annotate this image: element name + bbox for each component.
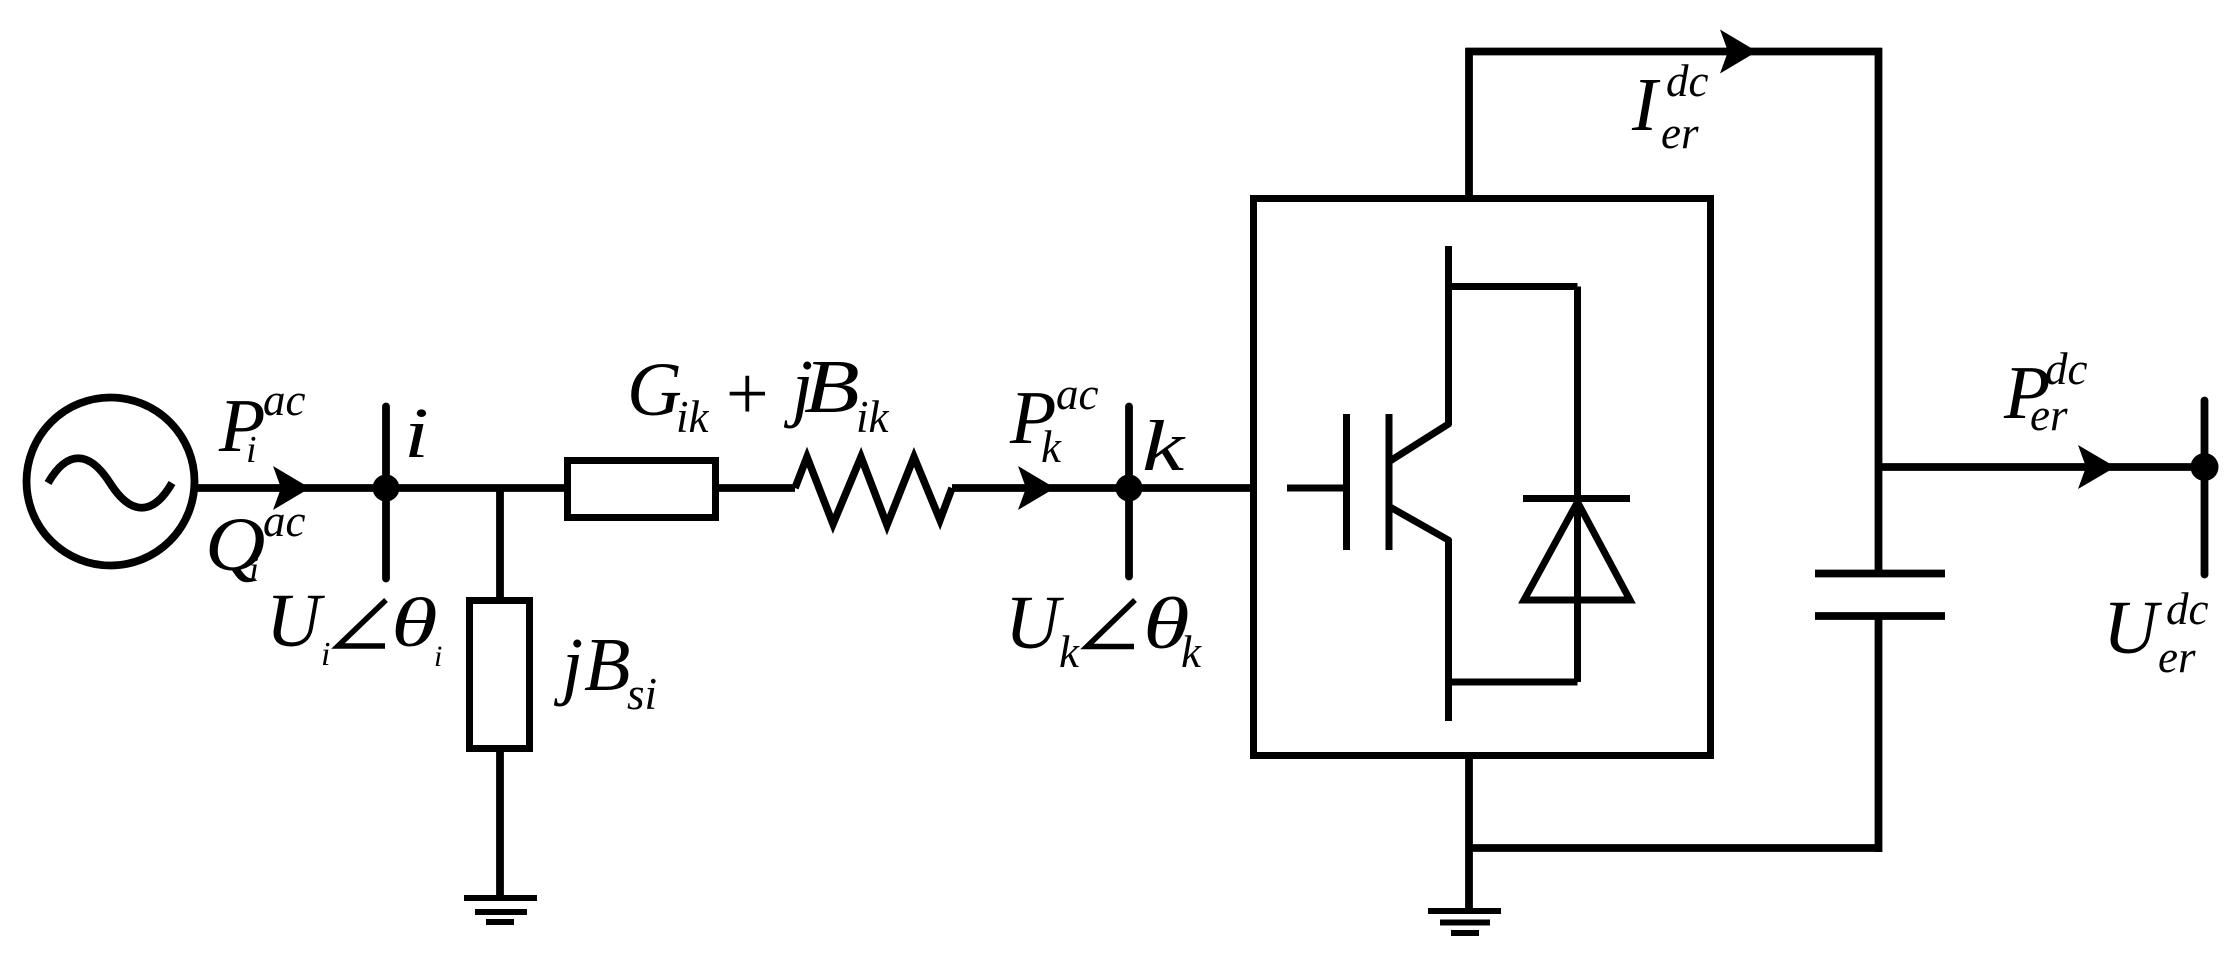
svg-text:ik: ik bbox=[856, 392, 890, 442]
svg-text:B: B bbox=[584, 623, 630, 707]
svg-text:er: er bbox=[2158, 632, 2196, 682]
svg-text:I: I bbox=[1631, 63, 1661, 147]
svg-text:dc: dc bbox=[2045, 344, 2088, 394]
svg-text:er: er bbox=[2030, 390, 2068, 440]
svg-text:dc: dc bbox=[1666, 56, 1709, 106]
svg-text:j: j bbox=[553, 623, 583, 707]
svg-text:ac: ac bbox=[1056, 369, 1099, 419]
svg-text:si: si bbox=[627, 669, 657, 719]
svg-text:dc: dc bbox=[2166, 584, 2209, 634]
svg-text:i: i bbox=[246, 429, 257, 471]
svg-text:G: G bbox=[627, 348, 682, 432]
svg-text:k: k bbox=[1142, 407, 1186, 487]
svg-text:ac: ac bbox=[263, 496, 306, 546]
svg-text:U: U bbox=[2103, 586, 2162, 670]
svg-text:i: i bbox=[434, 640, 442, 673]
svg-text:P: P bbox=[218, 384, 265, 468]
svg-text:i: i bbox=[404, 392, 429, 473]
svg-text:θ: θ bbox=[391, 585, 438, 662]
svg-text:i: i bbox=[321, 636, 330, 673]
svg-text:er: er bbox=[1661, 108, 1699, 158]
svg-text:k: k bbox=[1041, 422, 1062, 472]
svg-text:k: k bbox=[1059, 627, 1080, 677]
svg-text:B: B bbox=[804, 345, 860, 429]
svg-text:i: i bbox=[249, 549, 259, 589]
svg-text:k: k bbox=[1181, 627, 1202, 677]
svg-text:ac: ac bbox=[263, 375, 306, 425]
svg-text:ik: ik bbox=[676, 392, 710, 442]
svg-text:U: U bbox=[266, 579, 325, 663]
svg-text:U: U bbox=[1005, 581, 1064, 665]
svg-text:+: + bbox=[721, 352, 772, 436]
